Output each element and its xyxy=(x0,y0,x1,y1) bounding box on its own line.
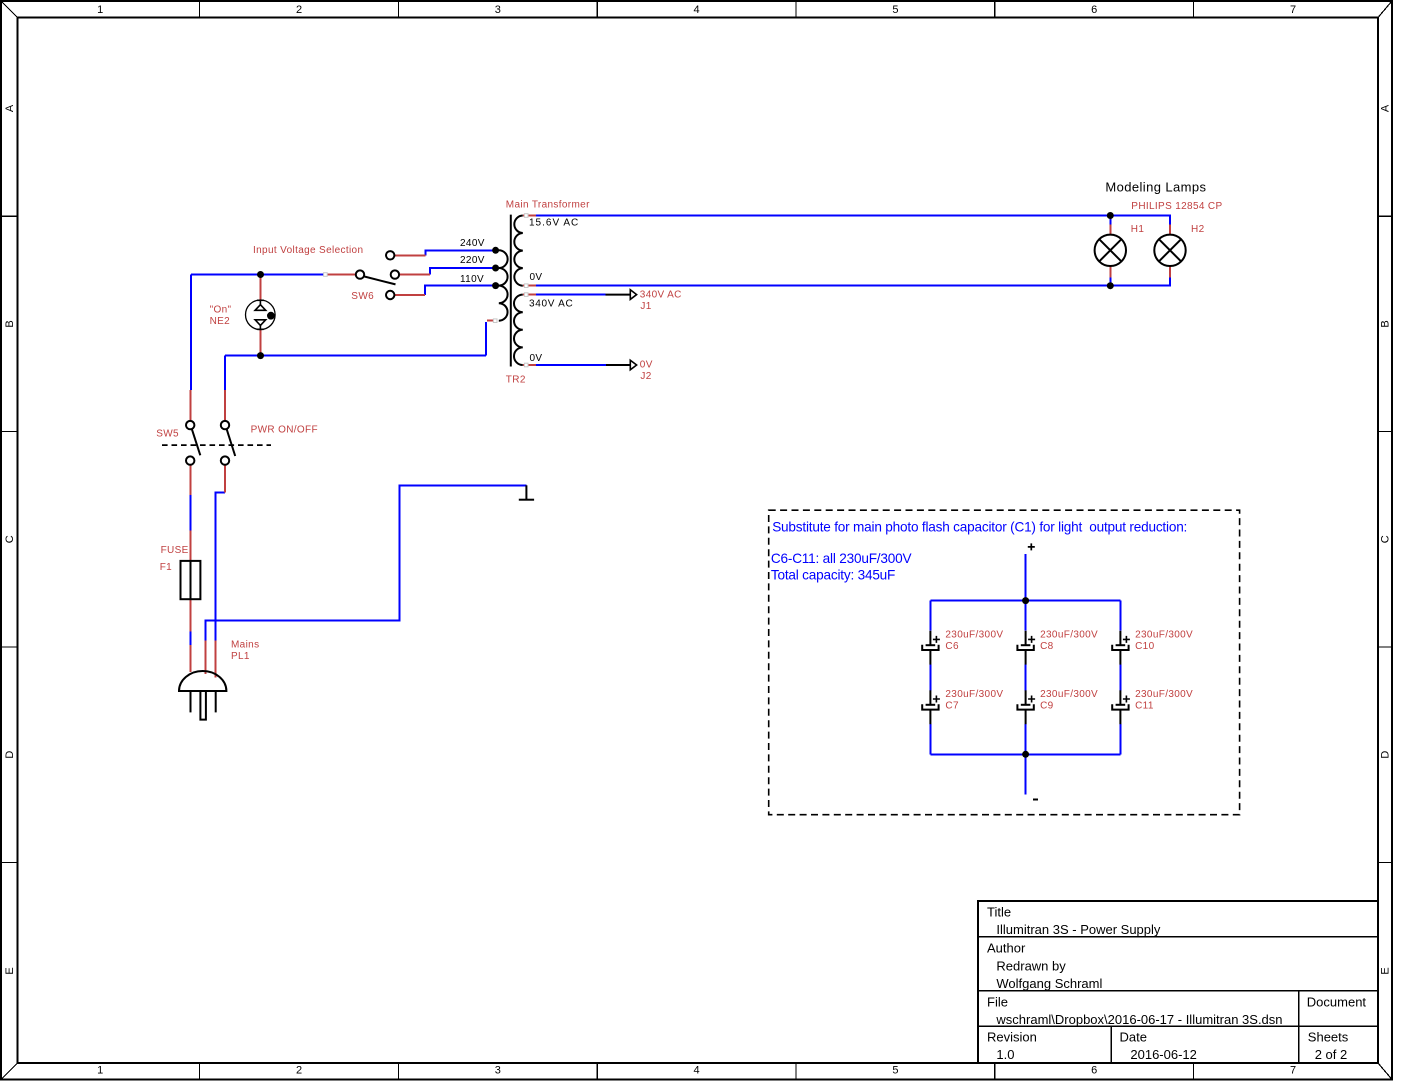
svg-text:Date: Date xyxy=(1120,1030,1147,1045)
svg-text:PHILIPS 12854 CP: PHILIPS 12854 CP xyxy=(1131,201,1222,212)
svg-text:2016-06-12: 2016-06-12 xyxy=(1130,1047,1197,1062)
C8 bottom pin xyxy=(1025,650,1027,665)
node 240V tap xyxy=(492,247,499,254)
zone column numbers top xyxy=(97,4,1296,16)
zone row letters left xyxy=(4,104,16,974)
svg-text:230uF/300V: 230uF/300V xyxy=(1135,689,1193,700)
PL1 middle prong xyxy=(200,691,206,720)
svg-text:6: 6 xyxy=(1091,4,1097,16)
svg-text:D: D xyxy=(1380,751,1392,759)
pin square SW6 pole xyxy=(324,273,328,277)
C9 bottom pin xyxy=(1025,710,1027,725)
SW6 arm xyxy=(364,276,396,284)
zone column numbers bottom xyxy=(97,1065,1296,1077)
J1 arrow xyxy=(630,290,636,300)
wire SW6 pole to NE2 top net xyxy=(191,274,326,276)
PL1 dome xyxy=(179,671,226,691)
node 220V tap xyxy=(492,265,499,272)
CIRCUIT-WIRES xyxy=(191,216,1171,795)
NE2 bulb circle xyxy=(245,300,275,330)
svg-text:A: A xyxy=(1380,104,1392,112)
svg-text:E: E xyxy=(4,967,16,974)
svg-text:Illumitran 3S - Power Supply: Illumitran 3S - Power Supply xyxy=(996,922,1161,937)
TR2 secondary winding 15.6V xyxy=(514,216,522,286)
J2 arrow xyxy=(630,360,636,370)
svg-text:5: 5 xyxy=(892,4,898,16)
svg-text:TR2: TR2 xyxy=(506,375,526,386)
NE2 top crossbar xyxy=(257,299,264,301)
C8 top pin xyxy=(1025,631,1027,646)
capacitor C7 xyxy=(922,690,940,724)
svg-text:4: 4 xyxy=(694,4,700,16)
C9 cup plate xyxy=(1017,704,1033,709)
wire H1 bottom stub xyxy=(1109,278,1111,286)
top zone dividers xyxy=(200,1,1194,18)
svg-text:PL1: PL1 xyxy=(231,651,250,662)
NE2 bottom stem xyxy=(259,325,261,329)
node H1 top junction xyxy=(1107,212,1114,219)
svg-text:Total capacity: 345uF: Total capacity: 345uF xyxy=(771,567,895,582)
title block divider Document xyxy=(1298,991,1300,1063)
svg-text:"On": "On" xyxy=(210,304,232,315)
pin H2 top xyxy=(1169,224,1171,235)
title block line Title/Author xyxy=(978,936,1378,938)
NE2 top stem xyxy=(259,300,261,305)
wire 15.6V AC top net xyxy=(536,216,1170,225)
SW5 pole2 arm xyxy=(227,429,236,456)
capacitor C10 xyxy=(1112,631,1130,665)
SW6 contact 240V xyxy=(386,251,394,259)
CIRCUIT-PINS (red stubs) xyxy=(191,216,1171,678)
title block line Author/File xyxy=(978,990,1378,992)
TR2 primary winding xyxy=(499,250,508,320)
SW5 pole1 arm xyxy=(192,429,201,455)
corner diagonal top-right xyxy=(1378,1,1392,18)
svg-text:PWR ON/OFF: PWR ON/OFF xyxy=(251,425,318,436)
node cap bank bottom junction xyxy=(1022,751,1029,758)
earth stem xyxy=(525,485,527,499)
svg-text:SW5: SW5 xyxy=(156,429,179,440)
pin TR2 sec1 top xyxy=(523,215,536,217)
F1 element line xyxy=(190,561,192,599)
C10 top pin xyxy=(1119,631,1121,646)
svg-text:E: E xyxy=(1380,967,1392,974)
bottom zone dividers xyxy=(200,1063,1194,1080)
pin-end squares (gray) xyxy=(324,214,528,367)
SW6 contact 220V xyxy=(391,270,399,278)
pin TR2 sec2 top xyxy=(523,294,536,296)
C7 top plate xyxy=(926,704,936,706)
title block outline xyxy=(978,901,1378,1063)
pin square TR2 sec2 top xyxy=(524,293,528,297)
port J2 (off-page connector) xyxy=(606,360,637,370)
mains plug PL1 xyxy=(179,671,226,720)
wire H1 top stub xyxy=(1109,216,1111,225)
F1 body rect xyxy=(181,561,201,599)
left zone dividers xyxy=(1,216,18,862)
svg-text:7: 7 xyxy=(1290,4,1296,16)
switch SW5 (power on/off, 2 poles) xyxy=(162,421,271,465)
pin SW5 pole2 bottom xyxy=(224,465,226,493)
svg-text:230uF/300V: 230uF/300V xyxy=(945,689,1003,700)
pin square TR2 sec1 top xyxy=(524,214,528,218)
SW5 pole2 top contact xyxy=(221,421,229,429)
pin H1 bottom xyxy=(1109,266,1111,278)
svg-text:SW6: SW6 xyxy=(351,291,374,302)
svg-text:110V: 110V xyxy=(460,274,484,285)
svg-text:D: D xyxy=(4,751,16,759)
SW6 contact 110V xyxy=(386,291,394,299)
PL1 right prong xyxy=(215,691,217,712)
pin TR2 sec1 bottom xyxy=(523,285,536,287)
C6 plus sign xyxy=(933,636,940,643)
pin SW6 contact 220V xyxy=(399,274,430,276)
zone row letters right xyxy=(1380,104,1392,974)
svg-text:3: 3 xyxy=(495,1065,501,1077)
title block line File/Revision xyxy=(978,1025,1378,1027)
C11 cup plate xyxy=(1112,704,1128,709)
wire plug middle pin to earth xyxy=(206,485,527,640)
SW5 pole2 bottom contact xyxy=(221,456,229,464)
wire SW6 240V tap xyxy=(425,250,495,255)
C11 plus sign xyxy=(1123,696,1130,703)
svg-text:Revision: Revision xyxy=(987,1030,1037,1045)
C7 cup plate xyxy=(922,704,938,709)
capacitor C9 xyxy=(1017,690,1035,724)
SW5 gang dashed link xyxy=(162,444,271,446)
pin TR2 sec2 bottom xyxy=(523,364,536,366)
pin plug right xyxy=(215,641,217,678)
svg-text:0V: 0V xyxy=(530,353,543,364)
SW5 pole1 top contact xyxy=(186,421,194,429)
wire NE2 net up to transformer primary bottom xyxy=(485,322,487,356)
pin SW5 pole1 top xyxy=(190,390,192,421)
wire cap C10 column segments xyxy=(1119,601,1121,755)
pin plug middle xyxy=(205,641,207,675)
svg-text:F1: F1 xyxy=(160,562,172,573)
fuse F1 xyxy=(181,561,201,599)
svg-text:Sheets: Sheets xyxy=(1308,1030,1349,1045)
svg-text:H2: H2 xyxy=(1191,224,1205,235)
svg-text:C10: C10 xyxy=(1135,641,1154,652)
svg-text:230uF/300V: 230uF/300V xyxy=(1135,629,1193,640)
svg-text:230uF/300V: 230uF/300V xyxy=(1040,629,1098,640)
H2 circle xyxy=(1154,235,1185,266)
wire capacitor bank top rail xyxy=(930,600,1120,602)
title block divider Revision/Date xyxy=(1110,1026,1112,1063)
C7 bottom pin xyxy=(929,710,931,725)
TR2 core line xyxy=(510,215,512,367)
wire 0V to J2 xyxy=(536,364,606,366)
svg-text:1: 1 xyxy=(97,4,103,16)
svg-text:2 of 2: 2 of 2 xyxy=(1315,1047,1348,1062)
lamp H2 xyxy=(1154,235,1185,266)
C7 top pin xyxy=(929,690,931,705)
PL1 left prong xyxy=(190,691,192,712)
svg-text:C9: C9 xyxy=(1040,701,1054,712)
C10 top plate xyxy=(1116,644,1126,646)
note box dashed border xyxy=(769,510,1240,815)
svg-text:Document: Document xyxy=(1307,995,1367,1010)
node - polarity mark bottom xyxy=(1033,799,1038,801)
svg-text:6: 6 xyxy=(1091,1065,1097,1077)
TR2 secondary winding 340V xyxy=(514,295,523,365)
svg-text:wschraml\Dropbox\2016-06-17 -: wschraml\Dropbox\2016-06-17 - Illumitran… xyxy=(995,1012,1282,1027)
svg-text:7: 7 xyxy=(1290,1065,1296,1077)
corner diagonal bottom-left xyxy=(1,1063,18,1080)
NE2 electrode triangle up xyxy=(255,305,266,311)
C11 bottom pin xyxy=(1119,710,1121,725)
pin NE2 bottom xyxy=(260,329,262,354)
svg-text:C: C xyxy=(4,535,16,543)
svg-text:Input Voltage Selection: Input Voltage Selection xyxy=(253,245,363,256)
node SW6 pole / NE2 top junction xyxy=(257,271,264,278)
pin H2 bottom xyxy=(1169,266,1171,278)
svg-text:FUSE: FUSE xyxy=(161,545,189,556)
svg-text:H1: H1 xyxy=(1131,224,1145,235)
C7 plus sign xyxy=(933,696,940,703)
wire NE2 bottom net horizontal xyxy=(225,355,486,357)
C10 bottom pin xyxy=(1119,650,1121,665)
pin TR2 primary bottom xyxy=(487,320,498,322)
SW5 pole1 bottom contact xyxy=(186,456,194,464)
svg-text:B: B xyxy=(4,320,16,327)
wire capacitor bank bottom rail xyxy=(930,753,1120,755)
pin plug left xyxy=(190,645,192,672)
node 110V tap xyxy=(492,282,499,289)
pin NE2 top xyxy=(260,277,262,301)
NE2 indicator dot xyxy=(267,312,275,320)
J1 lead xyxy=(606,294,631,296)
svg-text:Redrawn by: Redrawn by xyxy=(996,958,1066,973)
pin SW6 contact 110V xyxy=(395,294,425,296)
C6 top plate xyxy=(926,644,936,646)
right zone dividers xyxy=(1378,216,1392,862)
earth symbol (chassis) xyxy=(519,485,534,499)
svg-text:2: 2 xyxy=(296,4,302,16)
svg-text:J2: J2 xyxy=(640,371,651,382)
pin SW6 pole left xyxy=(325,274,355,276)
svg-text:C6-C11: all 230uF/300V: C6-C11: all 230uF/300V xyxy=(771,551,912,566)
svg-text:5: 5 xyxy=(892,1065,898,1077)
svg-text:3: 3 xyxy=(495,4,501,16)
earth bar xyxy=(519,499,534,501)
NE2 electrode triangle down xyxy=(255,320,266,326)
svg-text:Main Transformer: Main Transformer xyxy=(506,200,590,211)
svg-text:1.0: 1.0 xyxy=(996,1047,1014,1062)
svg-text:1: 1 xyxy=(97,1065,103,1077)
wire capacitor bank top feed xyxy=(1025,554,1027,601)
node cap bank top junction xyxy=(1022,597,1029,604)
svg-text:240V: 240V xyxy=(460,238,485,249)
svg-text:15.6V AC: 15.6V AC xyxy=(529,218,579,229)
wire SW5 pole1 to fuse xyxy=(190,495,192,530)
svg-text:File: File xyxy=(987,995,1008,1010)
wire cap C6 column segments xyxy=(929,601,931,755)
svg-text:C6: C6 xyxy=(945,641,959,652)
transformer TR2 xyxy=(499,215,523,367)
capacitor C8 xyxy=(1017,631,1035,665)
svg-text:Title: Title xyxy=(987,905,1011,920)
wire fuse to plug xyxy=(190,631,192,645)
svg-text:C8: C8 xyxy=(1040,641,1054,652)
H1 circle xyxy=(1095,235,1126,266)
svg-text:220V: 220V xyxy=(460,255,485,266)
C6 bottom pin xyxy=(929,650,931,665)
H2 X lines xyxy=(1159,239,1181,261)
svg-text:340V AC: 340V AC xyxy=(529,298,573,309)
pin fuse top xyxy=(190,530,192,561)
pin square TR2 primary bottom xyxy=(493,319,497,323)
svg-text:B: B xyxy=(1380,320,1392,327)
switch SW6 (input voltage selector) xyxy=(356,251,399,299)
pin SW5 pole1 bottom xyxy=(190,465,192,495)
pin H1 top xyxy=(1109,224,1111,235)
wire NE2 net down to SW5 pole2 xyxy=(224,356,226,390)
svg-text:A: A xyxy=(4,104,16,112)
NE2 bottom crossbar xyxy=(257,328,264,330)
node NE2 bottom junction xyxy=(257,352,264,359)
pin square TR2 sec2 bottom xyxy=(524,363,528,367)
C8 plus sign xyxy=(1028,636,1035,643)
svg-text:Author: Author xyxy=(987,941,1026,956)
wire capacitor bank bottom feed xyxy=(1025,754,1027,794)
wire SW6 110V tap xyxy=(425,286,496,295)
svg-text:C7: C7 xyxy=(945,701,959,712)
C10 plus sign xyxy=(1123,636,1130,643)
svg-text:2: 2 xyxy=(296,1065,302,1077)
svg-text:C11: C11 xyxy=(1135,701,1154,712)
wire lamp 0V bottom net xyxy=(536,278,1170,286)
node H1 bottom junction xyxy=(1107,282,1114,289)
svg-text:0V: 0V xyxy=(530,272,543,283)
C8 top plate xyxy=(1021,644,1031,646)
svg-text:C: C xyxy=(1380,535,1392,543)
capacitor C6 xyxy=(922,631,940,665)
svg-text:NE2: NE2 xyxy=(210,316,231,327)
wire cap C8 column segments xyxy=(1025,601,1027,755)
C9 top pin xyxy=(1025,690,1027,705)
svg-text:0V: 0V xyxy=(640,360,653,371)
wire SW5 pole2 to plug right pin xyxy=(216,493,226,641)
wire SW6 220V tap xyxy=(430,268,496,275)
C6 top pin xyxy=(929,631,931,646)
corner diagonal top-left xyxy=(1,1,18,18)
J2 lead xyxy=(606,364,630,366)
wire left vertical to SW5 pole1 xyxy=(190,275,192,391)
C11 top plate xyxy=(1116,704,1126,706)
corner diagonal bottom-right xyxy=(1378,1063,1392,1080)
svg-text:Wolfgang Schraml: Wolfgang Schraml xyxy=(996,976,1102,991)
svg-text:Mains: Mains xyxy=(231,640,259,651)
H1 X lines xyxy=(1099,239,1121,261)
wire 340V AC to J1 xyxy=(536,294,606,296)
pin square TR2 sec1 bottom xyxy=(524,284,528,288)
SW6 pole contact xyxy=(356,270,364,278)
port J1 (off-page connector) xyxy=(606,290,637,300)
svg-text:340V AC: 340V AC xyxy=(640,290,682,301)
svg-text:Modeling Lamps: Modeling Lamps xyxy=(1105,180,1206,195)
lamp H1 xyxy=(1095,235,1126,266)
pin SW6 contact 240V xyxy=(395,254,426,256)
C11 top pin xyxy=(1119,690,1121,705)
pin fuse bottom xyxy=(190,599,192,631)
C8 cup plate xyxy=(1017,645,1033,650)
svg-text:J1: J1 xyxy=(640,301,651,312)
capacitor C11 xyxy=(1112,690,1130,724)
svg-text:230uF/300V: 230uF/300V xyxy=(1040,689,1098,700)
svg-text:230uF/300V: 230uF/300V xyxy=(945,629,1003,640)
svg-text:Substitute for main photo flas: Substitute for main photo flash capacito… xyxy=(772,520,1187,535)
neon lamp NE2 xyxy=(245,300,275,330)
TITLE BLOCK xyxy=(978,901,1378,1063)
C10 cup plate xyxy=(1112,645,1128,650)
pin SW5 pole2 top xyxy=(224,390,226,421)
svg-text:4: 4 xyxy=(694,1065,700,1077)
C6 cup plate xyxy=(922,645,938,650)
C9 top plate xyxy=(1021,704,1031,706)
C9 plus sign xyxy=(1028,696,1035,703)
node + polarity mark top xyxy=(1028,543,1035,550)
